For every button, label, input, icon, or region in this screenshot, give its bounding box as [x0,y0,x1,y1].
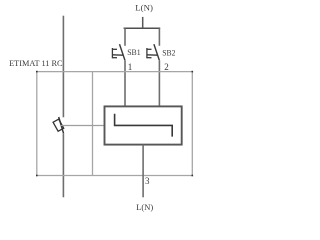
svg-text:ETIMAT 11 RC: ETIMAT 11 RC [9,59,63,68]
circuit breaker ETIMAT body [53,119,64,131]
svg-text:L(N): L(N) [136,202,153,212]
relay U1 body [105,106,182,144]
wire relay output [142,145,144,198]
svg-text:L(N): L(N) [135,3,153,13]
wire SB1 lower [124,60,126,106]
pushbutton SB2 [147,44,159,60]
wire SB2 lower [158,60,160,106]
svg-text:2: 2 [164,62,169,72]
wire breaker to relay [61,125,105,127]
corner dot bottom-left [36,175,38,177]
wire SB2 upper [158,28,160,46]
enclosure partition [92,72,94,176]
svg-text:SB1: SB1 [127,48,140,57]
wire stub from L(N) [142,17,144,28]
corner dot top-right [192,71,194,73]
enclosure boundary left [36,72,38,176]
pushbutton SB1 [112,44,125,60]
svg-text:SB2: SB2 [162,48,175,57]
wire left main upper [62,16,64,118]
enclosure boundary bottom [37,175,193,177]
wire T-bar [124,27,161,29]
corner dot top-left [36,71,38,73]
enclosure boundary top [37,71,193,73]
svg-text:3: 3 [145,176,150,186]
wire SB1 upper [124,28,126,46]
enclosure boundary right [191,72,193,176]
wire left main lower [62,133,64,197]
circuit breaker ETIMAT blade [59,117,64,133]
relay contact symbol [115,114,173,137]
corner dot bottom-right [192,175,194,177]
